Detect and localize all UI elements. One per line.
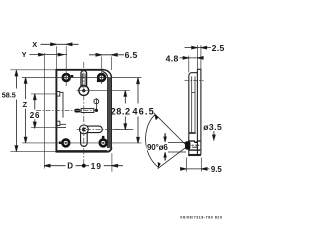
top-right corner arcs: [104, 70, 112, 78]
vertical main axis: [83, 62, 85, 166]
svg-text:90°ø6: 90°ø6: [147, 143, 168, 152]
upper leg: [154, 113, 186, 145]
ext bottom edge left y=151.6: [10, 151, 55, 153]
right edge thick band: [107, 78, 112, 148]
dimension 28.2: [124, 91, 127, 130]
dimension o3.5 leader: [213, 131, 216, 140]
top boss horizontal centerline: [22, 77, 142, 79]
dimension 9.5: [181, 158, 210, 172]
side view case: [189, 73, 198, 155]
bottom boss centerline: [22, 142, 142, 144]
slide rectangle: [81, 109, 94, 113]
phantom line x=44.3: [43, 53, 45, 169]
ext line y=93.9 for 26: [31, 93, 57, 95]
o6 extension lines: [164, 133, 186, 160]
angular dimension 90 deg: [146, 113, 186, 169]
90 deg o6 text: [146, 141, 168, 152]
top-right boss axis vertical: [101, 57, 103, 85]
ext lines for 2.5: [197, 45, 201, 69]
svg-text:Z: Z: [23, 100, 28, 109]
keyhole slot: [79, 71, 89, 96]
svg-text:D: D: [67, 162, 73, 171]
side view inner slot: [189, 76, 196, 133]
dimension 6.5: [89, 53, 124, 56]
ext right edge up: [111, 57, 113, 71]
side view axis dash-dot: [185, 79, 204, 81]
svg-text:9.5: 9.5: [211, 165, 223, 174]
dimension Y: [30, 53, 68, 56]
dimension 4.8: [180, 56, 204, 73]
ext line y=126.2 for 26: [31, 127, 57, 129]
svg-text:28.2: 28.2: [111, 106, 131, 116]
small circle with link: [94, 98, 99, 112]
slide mechanism pill: [74, 109, 94, 113]
svg-text:19: 19: [91, 162, 102, 171]
svg-text:58.5: 58.5: [2, 91, 16, 100]
mechanism centerline: [36, 110, 97, 112]
arc: [146, 115, 159, 168]
arc arrowheads: [154, 114, 158, 120]
bottom-right corner arcs: [107, 148, 111, 152]
bottom-right boss: [100, 136, 107, 146]
dimension 2.5: [185, 45, 212, 69]
top-left boss: [63, 74, 74, 81]
bolt block side view: [185, 141, 200, 150]
ext 19 right edge down: [111, 153, 113, 172]
spring anchor bracket: [57, 121, 66, 127]
centerlines front view: [10, 46, 141, 172]
top-right boss: [97, 74, 105, 82]
ext plate left edge up: [55, 46, 57, 69]
bottom-left boss: [59, 140, 69, 147]
svg-text:08/98/7318-780 829: 08/98/7318-780 829: [180, 215, 222, 219]
svg-text:6.5: 6.5: [125, 50, 138, 60]
front view plate outline: [56, 69, 112, 152]
dimension Z: [24, 78, 27, 143]
ext top edge left y=69.8: [10, 69, 56, 71]
bolt cross: [80, 125, 103, 146]
side view bottom thick edge: [188, 154, 201, 156]
dimension 58.5: [15, 70, 18, 151]
hub horizontal centerline: [77, 90, 130, 92]
svg-text:ø3.5: ø3.5: [203, 122, 222, 132]
ext 28.2 bottom: [113, 129, 134, 131]
hub circle: [79, 86, 89, 96]
bolt centerline: [77, 128, 134, 130]
dimension 26: [33, 94, 36, 128]
side view plate: [188, 69, 201, 155]
dimension 46.5: [137, 78, 140, 143]
top-left boss axis vertical: [65, 46, 67, 86]
svg-text:X: X: [32, 40, 37, 49]
svg-text:2.5: 2.5: [212, 43, 225, 53]
lower leg: [158, 147, 186, 168]
left step bracket: [57, 91, 63, 117]
svg-text:4.8: 4.8: [166, 53, 179, 63]
svg-text:46.5: 46.5: [132, 106, 154, 116]
dimension D and 19: [44, 164, 123, 168]
dimension X: [41, 43, 79, 46]
svg-text:26: 26: [30, 111, 40, 120]
svg-text:Y: Y: [22, 50, 27, 59]
